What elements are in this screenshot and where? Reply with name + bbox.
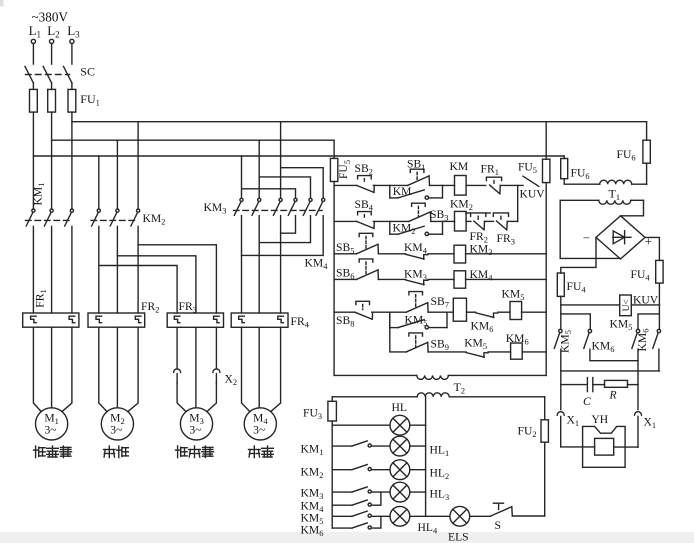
- wire to HL4: [371, 515, 390, 517]
- wire control bottom right: [448, 374, 546, 376]
- wire row5 junction: [372, 311, 407, 313]
- switch SC pole 2: [43, 66, 51, 83]
- lamp HL3: [390, 482, 410, 502]
- coil KM6: [511, 343, 523, 359]
- svg-text:SC: SC: [80, 65, 95, 79]
- lamp HL2: [390, 460, 410, 480]
- svg-text:ELS: ELS: [448, 531, 469, 543]
- transformer T2 secondary: [417, 393, 449, 397]
- contact KUV NO: [523, 176, 539, 186]
- wire KM5b bottom column: [637, 349, 639, 409]
- wire row5 to rail: [522, 311, 547, 313]
- wire dropper L1 to KM3/KM4 poles 1+4: [242, 156, 296, 198]
- wire row4 left: [334, 278, 356, 280]
- contact KM6a: [584, 329, 592, 348]
- wire dropper to KM2 pole3: [137, 122, 139, 209]
- button SB7 start: [409, 292, 423, 295]
- gray band bottom: [0, 532, 694, 543]
- wire row6 branch: [390, 312, 406, 352]
- wire control bottom left: [334, 374, 417, 376]
- wire plus rail down: [658, 283, 660, 305]
- linkage dash FR2: [466, 212, 471, 214]
- wire KM1 outputs to FR1: [33, 226, 72, 313]
- svg-text:+: +: [645, 234, 652, 249]
- switch SC pole 3: [64, 66, 72, 83]
- transformer T1 secondary: [560, 200, 643, 204]
- wire X1 left to YH: [561, 446, 595, 448]
- svg-text:3~: 3~: [44, 424, 56, 437]
- wire row2 left: [334, 220, 357, 222]
- wire dropper L2 to KM3/KM4 poles 2+5: [259, 140, 310, 198]
- wire bus L2 corner to FU5 left: [333, 140, 335, 158]
- wire row5 to KM6 interlock: [467, 311, 476, 313]
- contact KM5 NC interlock: [466, 353, 484, 358]
- rectifier bridge VC: [596, 216, 645, 259]
- wire KUV coil row: [561, 304, 620, 306]
- wire coil KM to FR1 contact: [466, 184, 486, 186]
- wire bridge plus to FU4 right: [645, 237, 659, 260]
- wire KM6 riser to HL4 row: [371, 516, 381, 528]
- svg-text:S: S: [495, 519, 501, 532]
- wire KM4 cross-link pole3-pole4: [281, 216, 296, 234]
- contact KM5 lamp row: [332, 515, 352, 517]
- contact KM5b: [632, 329, 640, 348]
- wire to HL3: [371, 491, 390, 493]
- wire to coil KM5: [498, 311, 510, 313]
- wire ELS to S: [470, 515, 491, 517]
- wire L2 column to KM1: [51, 112, 53, 209]
- lamp ELS: [450, 506, 470, 526]
- wire row2 junction: [373, 220, 409, 222]
- wire lamp bus: [425, 397, 427, 517]
- wire T1 secondary left to bridge bottom: [560, 200, 620, 258]
- wire plus rail branch to KM5b: [638, 305, 659, 329]
- wire coil KM2 to FR2: [466, 220, 471, 222]
- coil KM: [455, 176, 467, 196]
- electromagnet chuck YH: [583, 426, 626, 467]
- label yeyabeng hydraulic pump: [34, 446, 46, 458]
- wire dropper L3 to KM3/KM4 poles 3+6: [281, 122, 324, 199]
- wire row3 to rail: [466, 253, 547, 255]
- svg-text:YH: YH: [592, 414, 609, 426]
- wire chuck bottom: [561, 370, 660, 372]
- bus L2 phase: [52, 139, 335, 141]
- wire T1 primary right: [632, 183, 647, 185]
- wire row3 left: [334, 253, 356, 255]
- motor M2 leads and circle: [99, 327, 138, 440]
- contact KM1 lamp row: [332, 445, 352, 447]
- transformer T2 primary: [417, 375, 449, 379]
- contact KM6b: [653, 329, 661, 348]
- relay KUV undervoltage coil: [620, 295, 632, 316]
- wire dropper bus L3 to FU5 right: [545, 122, 547, 160]
- contact KM2 self-hold: [390, 221, 443, 235]
- wire bus L1 corner to FU6 left: [563, 156, 565, 159]
- thermal relay FR2: [88, 313, 145, 327]
- wire dropper to KM2 pole1: [98, 156, 100, 209]
- thermal relay FR4: [231, 313, 288, 327]
- connector X2 right pin: [215, 327, 217, 368]
- motor M1 leads and circle: [33, 327, 72, 440]
- wire KM4 cross-link pole2-pole5: [259, 216, 310, 243]
- wire KM4 riser to HL3 row: [371, 492, 381, 505]
- contact KM5 self-hold: [390, 312, 447, 329]
- wire L3 column to KM1: [71, 112, 73, 209]
- wire bridge minus to FU4 left: [561, 237, 596, 273]
- wire L2 drop to SC: [51, 44, 53, 65]
- fuse FU4 right: [656, 260, 663, 283]
- wire T2 secondary right: [449, 396, 545, 398]
- wire FU2 rail lower: [544, 442, 546, 516]
- wire row4 to coil: [428, 278, 454, 280]
- fuse FU1 pole 1: [30, 89, 38, 112]
- thermal relay FR3: [167, 313, 223, 327]
- button SB1 start: [410, 169, 424, 172]
- fuse FU4 left: [557, 273, 564, 296]
- lamp HL: [390, 415, 410, 435]
- fuse FU1 pole 3: [68, 89, 76, 112]
- wire HL1 to bus: [410, 445, 426, 447]
- wire row1 junction A: [373, 184, 407, 186]
- contact KM4 lamp row: [332, 504, 352, 506]
- coil KM3: [454, 245, 466, 263]
- wire row1 to KUV contact: [500, 184, 523, 186]
- svg-text:KM: KM: [393, 185, 412, 198]
- wire KM6b bottom: [658, 349, 660, 371]
- contact KM6 NC interlock: [476, 313, 494, 318]
- wire row6 to rail: [522, 351, 546, 353]
- fuse FU2: [541, 420, 548, 442]
- svg-text:3~: 3~: [189, 424, 201, 437]
- wire L3 drop to SC: [71, 44, 73, 65]
- wire row4 mid: [378, 278, 405, 280]
- contact FR1 NC: [486, 177, 501, 180]
- contact KM5a: [554, 329, 562, 348]
- wire FR2 to FR3: [485, 220, 494, 222]
- wire L1 column to KM1: [32, 112, 34, 209]
- wire row HL: [332, 424, 390, 426]
- wire riser row2 to row1: [517, 185, 519, 221]
- wire row2 to coil: [431, 220, 455, 222]
- coil KM2: [455, 211, 467, 231]
- wire FU6 left to T1 primary: [564, 179, 600, 185]
- wire dropper to KM2 pole2: [116, 140, 118, 209]
- thermal relay FR1: [23, 313, 79, 327]
- wire right control rail KUV: [545, 183, 547, 376]
- svg-text:−: −: [583, 231, 590, 245]
- wire row5 left: [334, 311, 355, 313]
- button SB9: [409, 333, 423, 336]
- wire to coil KM6: [488, 351, 510, 353]
- svg-text:KM: KM: [450, 160, 469, 173]
- wire plus rail to KM6b: [658, 314, 660, 329]
- contact FR2 NC: [471, 213, 486, 216]
- gray corner mark top-left: [0, 0, 4, 7]
- bus L3 phase top: [72, 121, 647, 123]
- button SB3 start: [412, 203, 426, 206]
- svg-text:R: R: [609, 389, 617, 402]
- fuse FU6 right: [643, 140, 650, 163]
- button SB2 stop: [358, 176, 372, 179]
- label shengjiang lift: [249, 446, 261, 458]
- wire row5 to block: [428, 311, 453, 313]
- svg-text:3~: 3~: [110, 424, 122, 437]
- button SB6 down: [359, 259, 373, 262]
- wire KUV to plus rail: [631, 304, 659, 306]
- wire L1 drop to SC: [32, 44, 34, 65]
- capacitor C branch: [561, 378, 605, 392]
- fuse FU5 right: [543, 159, 550, 182]
- connector X1 left: [557, 412, 564, 416]
- wire minus rail to KUV: [560, 296, 562, 329]
- label lengqiebeng cooling pump: [176, 446, 188, 458]
- coil KM5: [510, 302, 522, 320]
- contact KM self-hold: [390, 185, 443, 199]
- wire HL2 to bus: [410, 469, 426, 471]
- switch S: [491, 503, 513, 516]
- wire FU2 rail upper: [544, 397, 546, 420]
- connector X1 right: [635, 412, 642, 416]
- switch SC linkage dashed: [26, 74, 70, 76]
- svg-text:U<: U<: [622, 299, 632, 311]
- fuse FU5 left: [330, 158, 337, 181]
- contactor KM3 main contacts: [234, 198, 282, 215]
- fuse FU3: [328, 401, 337, 421]
- wire row3 to coil: [428, 253, 454, 255]
- wire left control rail: [333, 182, 335, 376]
- svg-text:3~: 3~: [253, 424, 265, 437]
- label shalun grinding wheel: [104, 446, 116, 458]
- svg-text:HL: HL: [392, 401, 407, 414]
- contactor KM4 main contacts: [288, 198, 325, 215]
- fuse FU6 left: [561, 159, 568, 179]
- bus L1 phase: [33, 155, 564, 157]
- lamp HL4: [390, 506, 410, 526]
- wire to HL2: [371, 469, 390, 471]
- contact KM6 lamp row: [332, 527, 352, 529]
- contact FR3 NC: [493, 213, 508, 216]
- wire tap KM2 pole2 to FR3 mid: [117, 256, 195, 313]
- wire tap KM2 pole3 to FR3 right: [138, 245, 216, 313]
- wire HL3 to bus: [410, 491, 426, 493]
- rectifier block row5: [453, 298, 466, 321]
- fuse FU1 pole 2: [48, 89, 56, 112]
- motor M3 leads and circle: [177, 327, 216, 440]
- linkage dash FR2-FR3: [486, 212, 493, 214]
- wire row1 to coil: [430, 184, 455, 186]
- wire row1 left: [334, 184, 357, 186]
- wire row4 to rail: [466, 278, 547, 280]
- wire T2 secondary left: [332, 396, 417, 398]
- wire KM6a bottom jog: [590, 349, 638, 361]
- wire row3 mid: [378, 253, 405, 255]
- switch SC pole 1: [25, 66, 33, 83]
- contact KM3 lamp row: [332, 491, 352, 493]
- wire SC to FU1 x3: [32, 83, 34, 90]
- lamp HL1: [390, 436, 410, 456]
- motor M4 leads and circle: [242, 327, 281, 440]
- contact KM2 lamp row: [332, 469, 352, 471]
- contact KM4 NC interlock: [406, 254, 424, 259]
- resistor R: [605, 380, 639, 387]
- wire tap KM2 pole1 to FR3 left: [99, 266, 177, 314]
- wire bus L3 corner to FU6 right: [646, 122, 648, 141]
- contactor KM1 main contacts: [26, 209, 74, 226]
- wire row2 right to riser: [507, 220, 518, 222]
- svg-text:C: C: [583, 395, 591, 408]
- linkage KM3-KM4 dashed: [234, 209, 323, 211]
- wire S to FU2: [512, 515, 544, 517]
- button SB4 stop: [358, 212, 372, 215]
- wire T1 secondary right to bridge top: [621, 200, 644, 216]
- wire YH to X1 right: [614, 446, 638, 448]
- wire row6 mid: [428, 351, 466, 353]
- contact KM3 NC interlock: [406, 280, 424, 285]
- wire lamp rail top: [331, 397, 333, 402]
- contactor KM2 main contacts: [91, 209, 140, 226]
- wire KM2 outputs to FR2: [99, 226, 138, 313]
- button SB5 up: [359, 233, 373, 236]
- coil KM4: [454, 271, 466, 288]
- wire HL to bus: [410, 424, 426, 426]
- wire KM4 cross-link pole1-pole6: [242, 216, 324, 256]
- wire KM5a bottom rail: [560, 349, 562, 410]
- wire branch to KM6a: [561, 314, 591, 329]
- wire HL4 to ELS: [410, 515, 450, 517]
- wire outputs to FR4: [242, 233, 281, 313]
- wire lamp rail: [331, 421, 333, 528]
- transformer T1 primary: [600, 180, 632, 184]
- wire FU6 right to T1 primary: [646, 163, 648, 184]
- button SB8 stop: [356, 301, 370, 304]
- wire to HL1: [371, 445, 390, 447]
- connector X2 left pin: [176, 327, 178, 368]
- svg-text:KUV: KUV: [520, 188, 546, 201]
